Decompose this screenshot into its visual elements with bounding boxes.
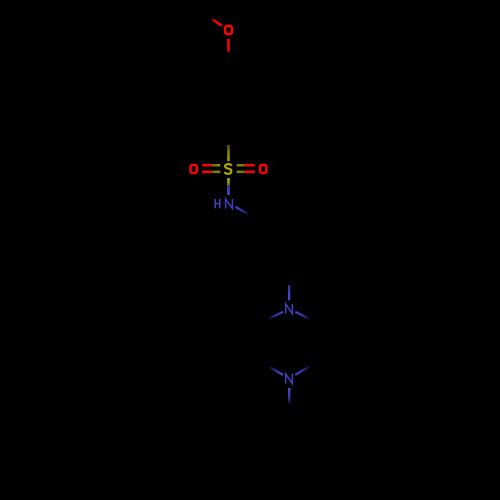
bond N2-C(ring) top-left blue half-bond (269, 312, 283, 319)
atom N3 (piperazine bottom nitrogen) (286, 374, 293, 384)
atom N1 (sulfonamide nitrogen) (226, 199, 233, 209)
atom O3 (sulfonyl oxygen right) (260, 165, 266, 173)
atom S1 (sulfur) (225, 164, 231, 174)
bond N2-C(ring) top-right blue half-bond (295, 312, 309, 319)
bond N1-C1 (blue half-bond) (236, 207, 249, 214)
bond O1-C(aryl) red half-bond (227, 39, 230, 53)
atom O1 (methoxy oxygen) (225, 26, 232, 34)
bond N3-C(ring) bottom-right blue half-bond (295, 366, 309, 375)
bond S1=O3 upper line (red half) (245, 164, 255, 167)
bond S1=O3 upper line (yellow half) (237, 164, 245, 167)
bond S1=O3 lower line (yellow half) (237, 171, 245, 174)
bond C3-N2 (blue half-bond) (288, 285, 290, 300)
bond S1=O2 lower line (red half) (202, 171, 212, 174)
atom O2 (sulfonyl oxygen left) (190, 165, 196, 173)
bond S1=O2 lower line (yellow half) (212, 171, 221, 174)
atom N1 hydrogen label H (215, 199, 220, 208)
bond S1=O2 upper line (yellow half) (212, 164, 221, 167)
bond S1-N1 (yellow to blue half-bonds) (227, 178, 230, 195)
bond O1-CH3 (methyl half-bond, red) (212, 19, 222, 25)
bond S1-C(aryl) yellow half-bond (227, 145, 230, 161)
atom N2 (piperazine top nitrogen) (286, 304, 293, 314)
bond S1=O3 lower line (red half) (245, 171, 255, 174)
bond N3-C(ring) bottom-left blue half-bond (269, 367, 283, 375)
bond S1=O2 upper line (red half) (202, 164, 212, 167)
bond N3-C(substituent) blue half-bond going down (288, 388, 290, 405)
